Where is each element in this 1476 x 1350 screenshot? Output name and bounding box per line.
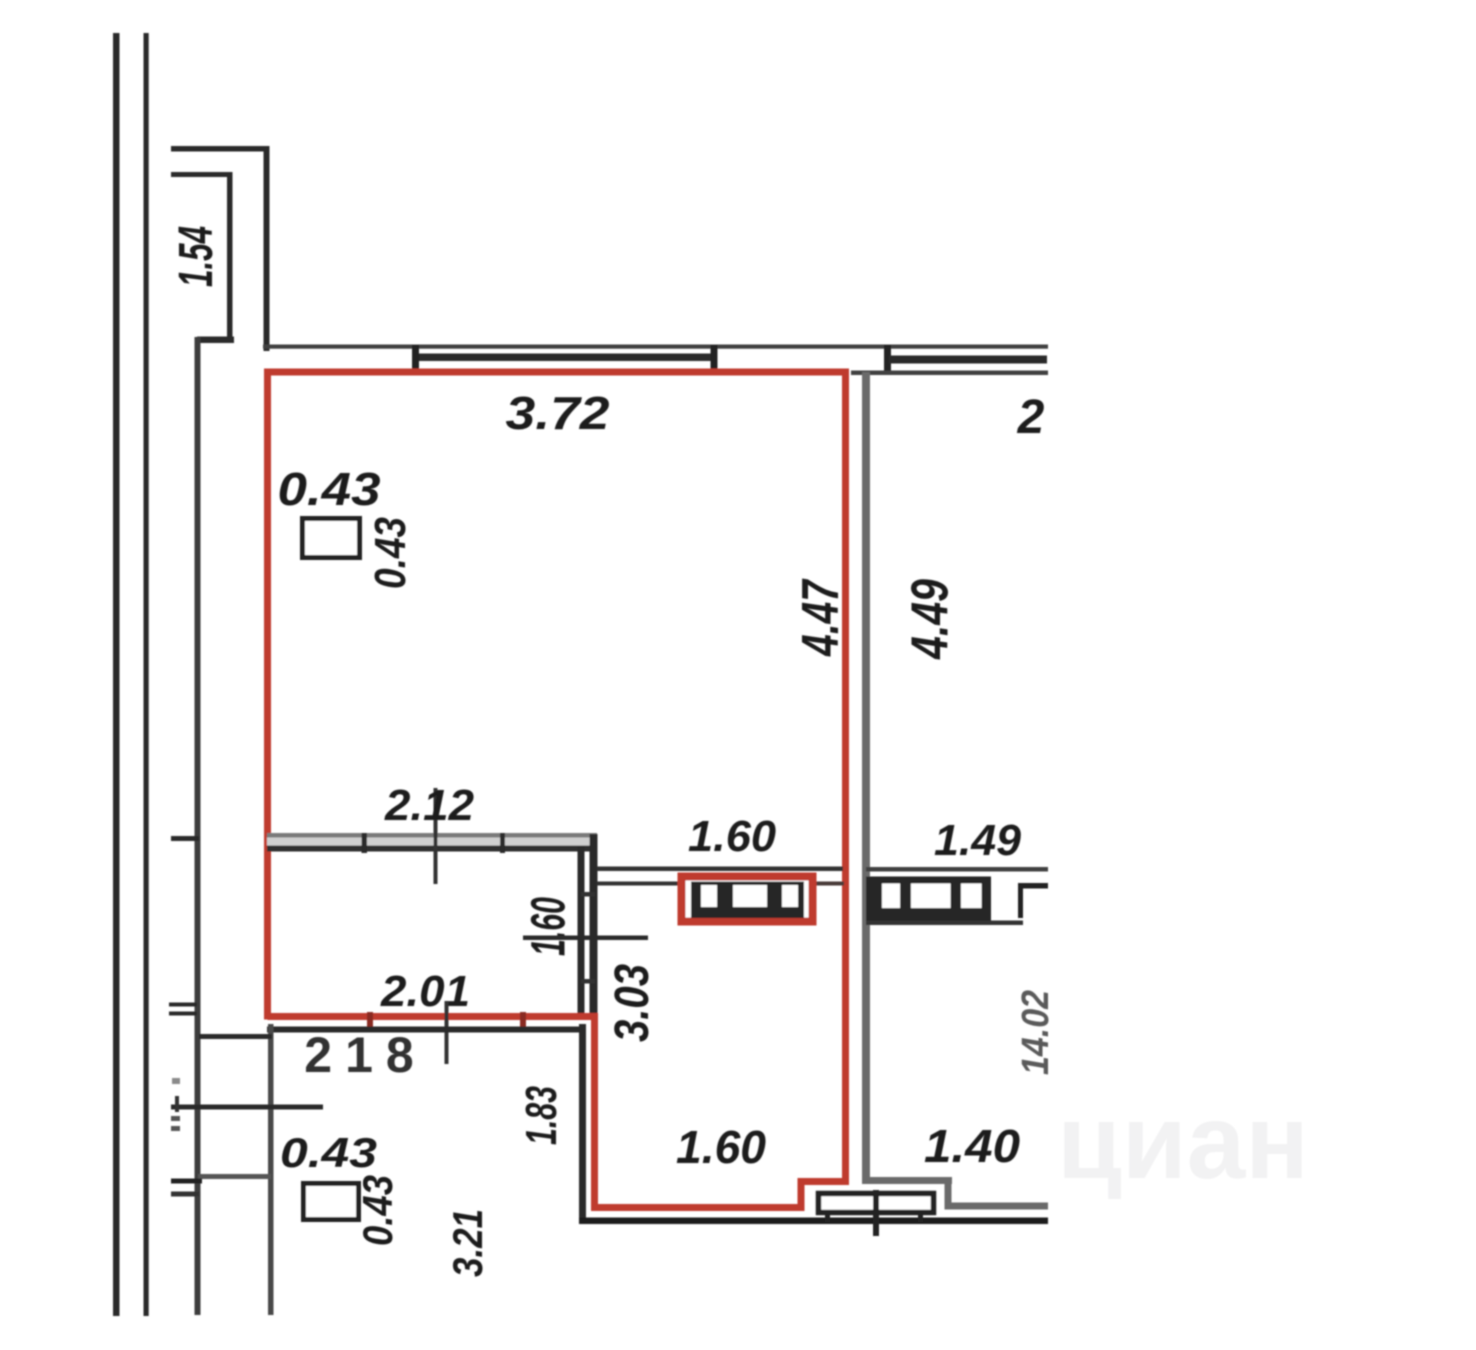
window: unit window frame: [691, 882, 804, 919]
wall: room divider grey band fill: [267, 835, 597, 847]
svg-text:1.40: 1.40: [924, 1120, 1020, 1172]
dimension line horizontal for 1.60: [523, 936, 648, 941]
wall: small room top line: [199, 1034, 272, 1039]
black tick y1194: [171, 1192, 199, 1197]
red dim tick 1 on unit bottom: [367, 1012, 373, 1027]
window pane 1: [701, 885, 717, 907]
wall: neighbour bottom grey line: [945, 1203, 1049, 1210]
window pane 3: [782, 885, 798, 907]
wall: top-left outer vertical: [264, 146, 270, 351]
window pane 2: [733, 885, 767, 907]
wall: hook line mid-left: [171, 1105, 323, 1110]
wall: opening top line left of red window: [597, 867, 843, 872]
wall: top-right lower line neighbour: [851, 371, 1048, 376]
wall: line above neighbour window: [866, 867, 1048, 872]
door sill leg right: [918, 1213, 923, 1222]
neighbour niche vertical: [1018, 885, 1023, 918]
wall: top-right thick line neighbour: [889, 356, 1047, 364]
tick small c: [171, 1116, 180, 1121]
wall: top facade line: [263, 345, 1048, 349]
wall: top-left inner horizontal: [171, 172, 231, 177]
svg-text:0.43: 0.43: [366, 517, 415, 589]
wall: hallway double wall left line: [578, 847, 585, 1013]
door sill leg left: [825, 1213, 830, 1222]
wall: neighbour step grey horizontal: [862, 1177, 952, 1184]
unit outline red: [268, 372, 846, 1208]
svg-text:1.49: 1.49: [934, 816, 1022, 865]
svg-text:3.03: 3.03: [606, 964, 659, 1042]
wall: grey vertical below unit left: [268, 1024, 274, 1315]
svg-text:0.43: 0.43: [354, 1175, 401, 1246]
svg-text:циан: циан: [1057, 1083, 1309, 1201]
wall: hallway double wall right line: [590, 834, 598, 1013]
wall: bottom long black line: [579, 1218, 1048, 1225]
wall: long inner vertical left: [195, 337, 201, 1315]
wall tick on divider 2: [500, 833, 505, 853]
svg-text:1.60: 1.60: [523, 897, 576, 956]
tick small a: [172, 1078, 180, 1084]
wall: lintel line left of red window: [597, 882, 680, 886]
neighbour window sill extension: [866, 921, 1023, 926]
wall: street double line outer: [113, 33, 120, 1316]
tick small c2: [171, 1126, 180, 1131]
wall: black line under red bottom: [267, 1027, 581, 1033]
neighbour niche top line: [1018, 883, 1048, 889]
svg-text:2.12: 2.12: [384, 781, 475, 830]
window tick left: [412, 345, 419, 371]
wall cavity tick 2: [581, 979, 595, 984]
svg-text:3.21: 3.21: [444, 1209, 491, 1277]
pillar square bottom: [304, 1184, 359, 1220]
double tick y1013: [169, 1012, 197, 1016]
double tick y1004: [169, 1003, 197, 1007]
wall: neighbour vertical grey: [862, 372, 870, 1182]
svg-text:14.02: 14.02: [1015, 990, 1057, 1075]
door sill rectangle: [819, 1194, 934, 1213]
tick small b vertical: [175, 1096, 179, 1112]
wall: top-left outer horizontal: [171, 146, 269, 152]
grey line y1176: [198, 1174, 271, 1179]
wall: top-left inner vertical: [227, 172, 233, 340]
neighbour window pane 2: [911, 884, 951, 909]
svg-text:2.01: 2.01: [380, 967, 470, 1016]
wall tick top-right corner: [884, 345, 891, 375]
wall: room divider bottom black line: [267, 846, 597, 852]
wall cavity tick 1: [581, 892, 595, 897]
wall tick on divider 1: [362, 833, 368, 853]
svg-text:1.60: 1.60: [688, 812, 777, 861]
black tick y1180: [171, 1179, 202, 1184]
svg-text:1.54: 1.54: [170, 226, 223, 287]
window: top window inner thick line: [414, 354, 714, 362]
wall: bottom-left corridor vertical black: [579, 1024, 586, 1221]
neighbour window pane 3: [961, 884, 982, 909]
window: neighbour window frame: [866, 877, 991, 922]
red dim tick 2 on unit bottom: [520, 1012, 526, 1027]
window: red highlight box: [682, 877, 813, 922]
dimension line for 2.12: [434, 788, 438, 884]
dimension line through door sill: [873, 1190, 879, 1236]
neighbour window pane 1: [882, 884, 900, 909]
window tick right: [711, 345, 718, 371]
wall: street double line inner: [144, 33, 149, 1316]
svg-text:1.60: 1.60: [676, 1121, 766, 1173]
wall: room divider top grey line: [267, 833, 597, 838]
svg-text:4.49: 4.49: [902, 579, 960, 660]
svg-text:0.43: 0.43: [278, 463, 381, 515]
svg-text:4.47: 4.47: [792, 578, 850, 656]
tick on wall at y838: [171, 836, 199, 841]
svg-text:1.83: 1.83: [517, 1086, 566, 1145]
wall: neighbour step vertical: [945, 1177, 952, 1206]
dimension line for 2.01: [445, 1001, 449, 1064]
pillar square top: [303, 519, 360, 558]
svg-text:0.43: 0.43: [280, 1129, 377, 1176]
wall: jog horizontal: [197, 337, 234, 344]
svg-text:2: 2: [1017, 391, 1045, 444]
wall: lintel line right of red window: [816, 882, 844, 886]
svg-text:3.72: 3.72: [506, 387, 610, 439]
svg-text:218: 218: [304, 1027, 426, 1083]
